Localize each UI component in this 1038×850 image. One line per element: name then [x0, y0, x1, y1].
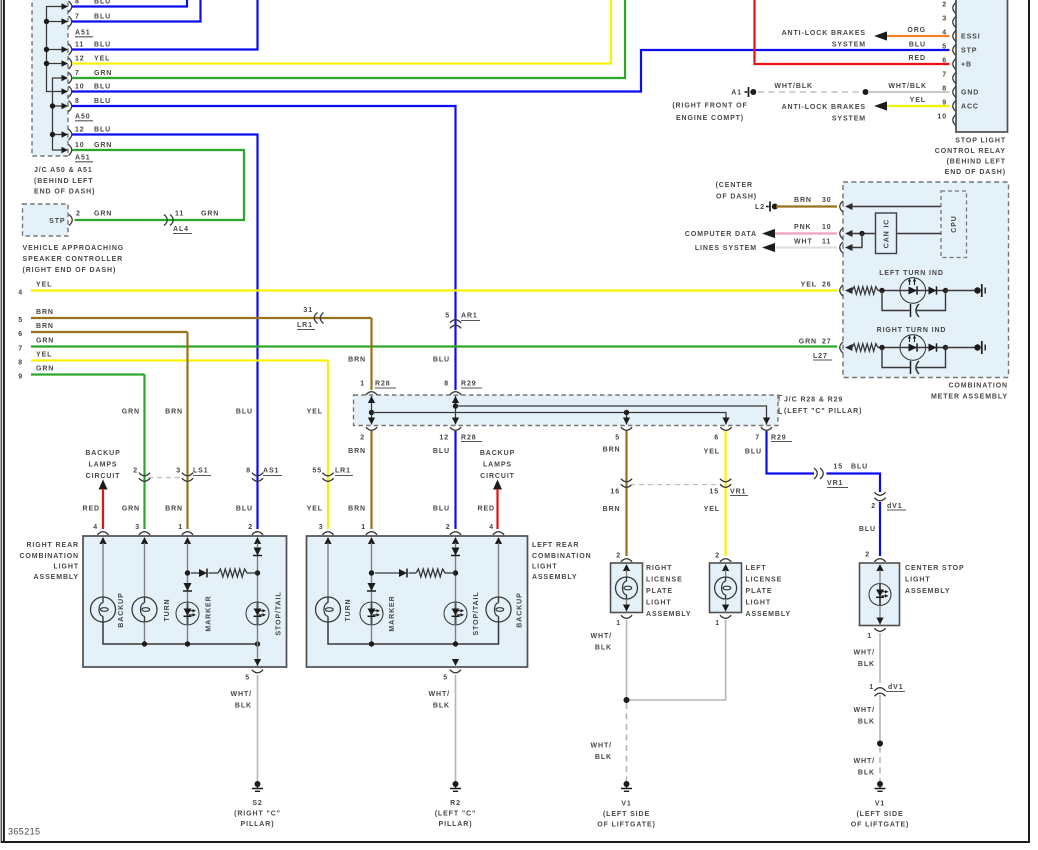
wire BRN vertical to right rear pin 1: [186, 332, 188, 529]
CPU box: [941, 191, 967, 258]
svg-text:LICENSE: LICENSE: [646, 577, 683, 584]
J/C R28 internal BRN path: [371, 396, 373, 425]
connector 55 LR1 on YEL: [322, 473, 333, 476]
svg-text:BLK: BLK: [235, 703, 252, 710]
svg-text:BLU: BLU: [94, 42, 111, 49]
wire BLU A51 pin 12 down to connector AS1: [72, 135, 258, 530]
svg-text:ASSEMBLY: ASSEMBLY: [905, 588, 950, 595]
svg-text:2: 2: [616, 553, 621, 560]
svg-text:WHT/: WHT/: [231, 691, 252, 698]
marker stem left: [371, 543, 373, 602]
svg-text:S2: S2: [252, 800, 262, 807]
svg-text:dV1: dV1: [887, 503, 903, 510]
svg-text:15: 15: [709, 489, 719, 496]
svg-text:2: 2: [76, 211, 81, 218]
splice on center stop ground wire: [877, 741, 883, 747]
svg-text:LEFT TURN IND: LEFT TURN IND: [879, 270, 944, 277]
svg-text:BLU: BLU: [859, 526, 876, 533]
right license pin 2 entry: [621, 559, 632, 562]
svg-text:VEHICLE APPROACHING: VEHICLE APPROACHING: [23, 245, 125, 252]
svg-text:16: 16: [610, 489, 620, 496]
svg-text:2: 2: [942, 2, 947, 9]
svg-text:11: 11: [75, 42, 84, 49]
wire BRN J/C pin 5 to right license plate lamp: [625, 431, 627, 556]
connector row LS1/AS1 dashed link: [148, 477, 184, 479]
center stop pin 1 exit: [879, 606, 881, 625]
branch resistor left: [416, 569, 445, 577]
svg-text:3: 3: [319, 524, 324, 531]
wire 7 GRN to combination meter pin 27: [31, 345, 837, 347]
CAN IC box: [876, 213, 897, 254]
wire WHT/BLK center stop to dV1: [879, 633, 881, 683]
right rear pin 1 entry: [182, 532, 193, 535]
svg-text:3: 3: [135, 524, 140, 531]
svg-text:ASSEMBLY: ASSEMBLY: [34, 574, 79, 581]
meter pin 10 socket: [840, 228, 843, 239]
right rear pin 3 entry: [139, 532, 150, 535]
svg-text:5: 5: [443, 675, 448, 682]
svg-text:PILLAR): PILLAR): [439, 821, 473, 828]
svg-text:V1: V1: [875, 801, 885, 808]
svg-text:PLATE: PLATE: [746, 588, 773, 595]
turn bulb: [132, 597, 157, 622]
svg-text:L2: L2: [755, 204, 765, 211]
vehicle approaching speaker controller STP box: [23, 204, 69, 236]
svg-text:1: 1: [178, 524, 183, 531]
wire WHT/BLK left license to junction: [627, 620, 726, 700]
wire BRN below J/C to left rear pin 1: [370, 431, 372, 529]
svg-text:COMBINATION: COMBINATION: [19, 553, 79, 560]
svg-text:BLK: BLK: [433, 703, 450, 710]
svg-text:BLU: BLU: [94, 14, 111, 21]
right rear pin 5 exit: [257, 625, 259, 666]
svg-text:BLK: BLK: [595, 645, 612, 652]
turn lamp stem: [144, 543, 146, 597]
svg-text:2: 2: [446, 524, 451, 531]
svg-text:WHT/: WHT/: [591, 633, 612, 640]
svg-text:ACC: ACC: [961, 104, 979, 111]
svg-text:BLU: BLU: [909, 42, 926, 49]
stop light control relay box: [956, 0, 1008, 132]
stop/tail series diode: [254, 548, 262, 556]
svg-text:L27: L27: [813, 353, 828, 360]
svg-text:10: 10: [937, 114, 947, 121]
left rear pin 3 entry: [322, 532, 333, 535]
svg-text:STP: STP: [49, 218, 65, 225]
svg-text:4: 4: [489, 524, 494, 531]
svg-text:31: 31: [303, 307, 313, 314]
svg-text:2: 2: [360, 435, 365, 442]
connector AL4 inline: [164, 215, 167, 226]
svg-text:GND: GND: [961, 90, 979, 97]
svg-text:VR1: VR1: [730, 489, 746, 496]
wire YEL J/C pin 6 to left license plate lamp: [724, 431, 726, 556]
wire YEL anti-lock brakes to relay pin 9: [874, 101, 887, 110]
svg-text:COMPUTER DATA: COMPUTER DATA: [685, 231, 757, 238]
svg-text:R2: R2: [450, 800, 461, 807]
J/C internal bus 1: [47, 7, 63, 92]
svg-text:5: 5: [615, 435, 620, 442]
svg-text:GRN: GRN: [94, 142, 112, 149]
branch resistor: [218, 569, 247, 577]
marker diode left: [368, 583, 376, 591]
J/C R28 pin 12 socket: [450, 427, 461, 430]
svg-text:ENGINE COMPT): ENGINE COMPT): [676, 115, 744, 122]
stop/tail stem: [257, 543, 259, 602]
svg-text:(LEFT SIDE: (LEFT SIDE: [603, 811, 650, 818]
svg-text:ANTI-LOCK BRAKES: ANTI-LOCK BRAKES: [782, 104, 866, 111]
svg-text:WHT/BLK: WHT/BLK: [774, 83, 813, 90]
meter pin 11 socket: [840, 242, 843, 253]
svg-text:GRN: GRN: [122, 506, 140, 513]
CAN IC to CPU wire: [897, 233, 942, 235]
svg-text:1: 1: [361, 524, 366, 531]
wire BRN vertical J/C R28 pin1: [370, 318, 372, 390]
J/C internal rail to pins 5 and 6: [372, 413, 727, 425]
wire WHT/BLK dashed to ground V1: [626, 703, 628, 781]
svg-text:11: 11: [822, 239, 831, 246]
svg-text:GRN: GRN: [36, 366, 54, 373]
marker LED left: [360, 602, 383, 625]
svg-text:(RIGHT "C": (RIGHT "C": [234, 811, 281, 818]
svg-text:6: 6: [18, 331, 23, 338]
svg-text:3: 3: [942, 16, 947, 23]
svg-text:R29: R29: [461, 381, 477, 388]
connector AR1 on BLU: [450, 320, 461, 323]
svg-text:GRN: GRN: [799, 339, 817, 346]
svg-text:BRN: BRN: [36, 309, 54, 316]
svg-text:SPEAKER CONTROLLER: SPEAKER CONTROLLER: [23, 256, 124, 263]
svg-text:ASSEMBLY: ASSEMBLY: [746, 611, 791, 618]
svg-text:END OF DASH): END OF DASH): [34, 189, 95, 196]
right rear pin 4 entry: [97, 532, 108, 535]
svg-text:COMBINATION: COMBINATION: [948, 383, 1008, 390]
center stop light assembly box: [860, 563, 900, 626]
ground R2: [453, 781, 459, 787]
svg-text:BRN: BRN: [165, 506, 183, 513]
LEFT TURN IND indicator LED: [900, 278, 926, 304]
wire YEL vertical to left rear pin 3: [327, 361, 329, 530]
svg-text:A51: A51: [75, 30, 91, 37]
svg-text:TURN: TURN: [345, 598, 352, 621]
svg-text:BLU: BLU: [433, 506, 450, 513]
svg-text:YEL: YEL: [94, 56, 110, 63]
page border bottom: [1, 841, 1029, 843]
connector VR1 inline on BLU: [814, 468, 817, 479]
svg-text:5: 5: [18, 317, 23, 324]
svg-text:LINES SYSTEM: LINES SYSTEM: [695, 245, 757, 252]
LEFT TURN IND pin socket and resistor: [840, 285, 843, 296]
svg-text:9: 9: [18, 374, 23, 381]
svg-text:2: 2: [865, 552, 870, 559]
branch diode to resistor: [191, 572, 199, 574]
svg-text:BRN: BRN: [36, 323, 54, 330]
wire BLU below J/C to left rear pin 2: [454, 431, 456, 529]
LEFT TURN IND series diode: [929, 287, 937, 295]
junction connector J/C A50 & A51 box: [32, 0, 68, 156]
right license plate light assembly box: [611, 563, 643, 613]
svg-text:V1: V1: [621, 801, 631, 808]
svg-text:BACKUP: BACKUP: [85, 450, 120, 457]
combination meter assembly box: [843, 182, 1009, 378]
svg-text:YEL: YEL: [910, 97, 926, 104]
svg-text:BLU: BLU: [433, 357, 450, 364]
svg-text:OF LIFTGATE): OF LIFTGATE): [851, 822, 910, 829]
svg-text:365215: 365215: [8, 827, 40, 837]
right rear bottom rail: [103, 622, 258, 644]
left rear combination light assembly box: [307, 536, 528, 667]
svg-text:(RIGHT FRONT OF: (RIGHT FRONT OF: [672, 103, 747, 110]
svg-text:WHT/: WHT/: [429, 691, 450, 698]
svg-text:BACKUP: BACKUP: [517, 592, 524, 627]
wire WHT/BLK dV1 to splice: [879, 695, 881, 744]
J/C pin 6 socket: [720, 427, 731, 430]
svg-text:A1: A1: [731, 90, 742, 97]
svg-text:30: 30: [822, 197, 832, 204]
svg-text:(BEHIND LEFT: (BEHIND LEFT: [947, 159, 1006, 166]
svg-text:A50: A50: [75, 114, 91, 121]
svg-text:1: 1: [867, 633, 872, 640]
wire WHT/BLK splice to relay pin 8: [868, 91, 950, 93]
svg-text:2: 2: [248, 524, 253, 531]
right license pin 1 exit: [626, 599, 628, 612]
RIGHT TURN IND indicator LED: [900, 335, 926, 361]
svg-text:GRN: GRN: [94, 70, 112, 77]
svg-text:WHT/BLK: WHT/BLK: [888, 83, 927, 90]
svg-text:MARKER: MARKER: [389, 595, 396, 631]
J/C internal rail to pin 7: [456, 406, 767, 425]
svg-text:(RIGHT END OF DASH): (RIGHT END OF DASH): [23, 267, 117, 274]
svg-text:WHT: WHT: [794, 239, 813, 246]
connector 8 AS1 on BLU: [252, 473, 263, 476]
svg-text:YEL: YEL: [307, 506, 323, 513]
wire BLU A50 pin 10 to stop light relay pin 5: [72, 50, 950, 92]
connector 15 VR1 on YEL: [720, 479, 731, 482]
svg-text:OF DASH): OF DASH): [716, 194, 757, 201]
svg-text:R29: R29: [771, 435, 787, 442]
meter pin 30 socket: [840, 201, 843, 212]
svg-text:10: 10: [75, 84, 85, 91]
svg-text:LIGHT: LIGHT: [532, 564, 558, 571]
marker stem and branch: [187, 543, 189, 602]
connector 2 dV1 on BLU: [874, 492, 885, 495]
svg-text:GRN: GRN: [36, 338, 54, 345]
wire 9 GRN down to right rear light: [31, 373, 145, 375]
J/C R28 pin 2 socket: [366, 427, 377, 430]
svg-text:CIRCUIT: CIRCUIT: [480, 473, 515, 480]
svg-text:LR1: LR1: [335, 468, 351, 475]
svg-text:BLK: BLK: [595, 754, 612, 761]
svg-text:RIGHT REAR: RIGHT REAR: [26, 542, 79, 549]
svg-text:LR1: LR1: [297, 322, 313, 329]
svg-text:(LEFT "C": (LEFT "C": [435, 811, 477, 818]
connector 3 LS1 on BRN: [182, 473, 193, 476]
svg-text:STOP/TAIL: STOP/TAIL: [473, 591, 480, 635]
svg-text:PNK: PNK: [794, 224, 811, 231]
wire BRN L2 to meter pin 30: [776, 205, 837, 207]
backup lamp stem: [102, 543, 104, 597]
svg-text:R28: R28: [375, 381, 391, 388]
svg-text:5: 5: [942, 44, 947, 51]
left license pin 2 entry: [720, 559, 731, 562]
connector 15 VR1 dashed link: [630, 484, 722, 486]
svg-text:LICENSE: LICENSE: [746, 577, 783, 584]
svg-text:11: 11: [175, 211, 184, 218]
page border left double line: [0, 0, 2, 843]
svg-text:3: 3: [176, 468, 181, 475]
svg-text:BRN: BRN: [348, 506, 366, 513]
svg-text:BRN: BRN: [165, 409, 183, 416]
svg-text:7: 7: [942, 72, 947, 79]
svg-text:4: 4: [93, 524, 98, 531]
svg-text:J/C A50 & A51: J/C A50 & A51: [34, 167, 93, 174]
svg-text:LIGHT: LIGHT: [905, 577, 931, 584]
svg-text:ANTI-LOCK BRAKES: ANTI-LOCK BRAKES: [782, 30, 866, 37]
connector 16 on BRN: [621, 479, 632, 482]
wire GRN A50 pin 7 to top: [72, 0, 625, 78]
svg-text:BLU: BLU: [236, 506, 253, 513]
svg-text:BLU: BLU: [745, 449, 762, 456]
right license bulb: [626, 570, 628, 577]
svg-text:WHT/: WHT/: [854, 758, 875, 765]
wire WHT/BLK right license down: [626, 620, 628, 700]
relay pin sockets: [953, 3, 956, 14]
meter internal CAN wiring: [845, 230, 853, 237]
wire WHT/BLK left rear to ground R2: [455, 675, 457, 781]
svg-text:MARKER: MARKER: [206, 595, 213, 631]
svg-text:8: 8: [75, 98, 80, 105]
svg-text:YEL: YEL: [801, 282, 817, 289]
svg-text:2: 2: [715, 553, 720, 560]
svg-text:CIRCUIT: CIRCUIT: [86, 473, 121, 480]
J/C internal bus 2: [53, 78, 63, 150]
connector LR1 inline 31: [314, 313, 317, 324]
svg-text:1: 1: [869, 684, 874, 691]
stop/tail LED: [246, 602, 269, 625]
svg-text:27: 27: [822, 339, 832, 346]
stop/tail LED left: [444, 602, 467, 625]
svg-text:CPU: CPU: [951, 215, 958, 232]
svg-text:LEFT: LEFT: [746, 565, 767, 572]
wire ORG anti-lock brakes to relay pin 4: [874, 31, 887, 40]
svg-text:BRN: BRN: [603, 447, 621, 454]
svg-text:RIGHT TURN IND: RIGHT TURN IND: [877, 327, 947, 334]
backup stem left: [498, 543, 500, 597]
svg-text:OF LIFTGATE): OF LIFTGATE): [597, 822, 656, 829]
turn bulb left: [316, 597, 341, 622]
svg-text:LIGHT: LIGHT: [646, 600, 672, 607]
svg-text:LIGHT: LIGHT: [746, 600, 772, 607]
svg-text:LS1: LS1: [193, 468, 209, 475]
center stop pin 2 entry: [874, 559, 885, 562]
svg-text:BRN: BRN: [603, 506, 621, 513]
J/C R28 R29 caption: [778, 396, 780, 402]
splice on ground wire: [863, 89, 869, 95]
J/C pin 5 socket: [621, 427, 632, 430]
right rear pin 2 entry: [252, 532, 263, 535]
svg-text:CENTER STOP: CENTER STOP: [905, 565, 965, 572]
svg-text:BLU: BLU: [94, 0, 111, 6]
branch diode left: [375, 572, 399, 574]
svg-text:STP: STP: [961, 48, 977, 55]
wire WHT/BLK dashed to ground V1 center: [879, 747, 881, 782]
svg-text:7: 7: [75, 14, 80, 21]
svg-text:4: 4: [18, 290, 23, 297]
svg-text:2: 2: [871, 503, 876, 510]
svg-text:YEL: YEL: [36, 352, 52, 359]
svg-text:BLU: BLU: [94, 127, 111, 134]
svg-text:SYSTEM: SYSTEM: [832, 116, 866, 123]
svg-text:12: 12: [75, 56, 85, 63]
right rear combination light assembly box: [83, 536, 287, 667]
svg-text:(CENTER: (CENTER: [716, 182, 753, 189]
wire WHT lines system to meter pin 11: [762, 243, 775, 252]
stop/tail stem left: [455, 543, 457, 602]
svg-text:YEL: YEL: [36, 282, 52, 289]
wire BLU dV1 to center stop pin 2: [879, 502, 881, 556]
svg-text:5: 5: [445, 313, 450, 320]
ground V1 liftgate left: [624, 781, 630, 787]
svg-text:A51: A51: [75, 155, 91, 162]
svg-text:8: 8: [75, 0, 80, 6]
J/C R28 pin 1 socket: [366, 392, 377, 395]
J/C R29 pin 7 socket: [761, 427, 772, 430]
left rear pin 2 entry: [450, 532, 461, 535]
RIGHT TURN IND pin socket and resistor: [840, 342, 843, 353]
svg-text:WHT/: WHT/: [591, 743, 612, 750]
svg-text:WHT/: WHT/: [854, 650, 875, 657]
svg-text:+B: +B: [961, 62, 972, 69]
svg-text:6: 6: [714, 435, 719, 442]
svg-text:BLK: BLK: [858, 770, 875, 777]
left license pin 1 exit: [725, 599, 727, 612]
J/C R29 internal BLU path: [455, 396, 457, 425]
svg-text:(LEFT "C" PILLAR): (LEFT "C" PILLAR): [784, 408, 862, 415]
J/C R29 pin 8 socket: [450, 392, 461, 395]
svg-text:COMBINATION: COMBINATION: [532, 553, 592, 560]
svg-text:STOP LIGHT: STOP LIGHT: [955, 138, 1006, 145]
svg-text:7: 7: [755, 435, 760, 442]
svg-text:R28: R28: [461, 435, 477, 442]
meter internal pin 30 to CPU: [845, 203, 853, 210]
svg-text:7: 7: [18, 346, 23, 353]
svg-text:12: 12: [439, 435, 449, 442]
wire RED relay pin 6 to top: [755, 0, 950, 64]
wire BLU A51 pin 11 to top: [72, 0, 258, 50]
RIGHT TURN IND series diode: [929, 344, 937, 352]
LEFT TURN IND capacitor branch: [882, 291, 910, 311]
svg-text:YEL: YEL: [704, 449, 720, 456]
svg-text:7: 7: [75, 70, 80, 77]
wire BLU J/C pin 7 to center stop lamp via VR1 and dV1: [767, 431, 815, 474]
wire YEL A51 pin 12 to top: [72, 0, 611, 64]
turn lamp stem left: [327, 543, 329, 597]
svg-text:8: 8: [246, 468, 251, 475]
svg-text:GRN: GRN: [94, 211, 112, 218]
svg-text:WHT/: WHT/: [854, 707, 875, 714]
svg-text:BLU: BLU: [94, 98, 111, 105]
connector 2 on GRN: [139, 473, 150, 476]
RIGHT TURN IND termination pin: [974, 344, 980, 350]
left rear pin 4 entry: [493, 532, 504, 535]
wire BLU A51 pin 7 to top: [72, 0, 201, 22]
left rear pin 1 entry: [366, 532, 377, 535]
ground S2: [255, 781, 261, 787]
wire GRN A51 pin 10 to speaker controller STP: [72, 150, 244, 220]
svg-text:BLK: BLK: [858, 719, 875, 726]
svg-text:8: 8: [444, 381, 449, 388]
ground V1 center stop: [877, 781, 883, 787]
